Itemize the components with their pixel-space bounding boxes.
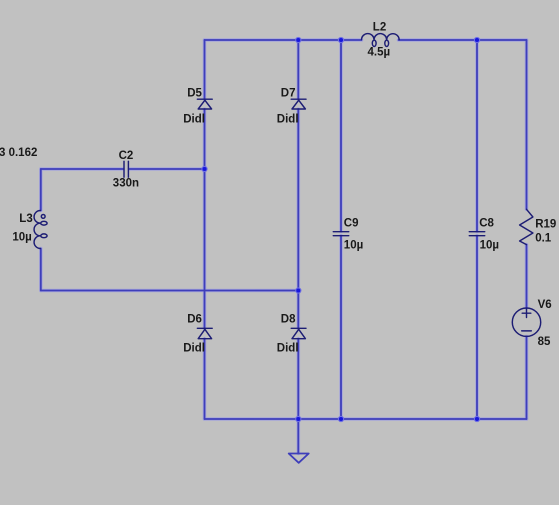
voltage source V6 [512, 308, 540, 336]
svg-text:D8: D8 [281, 313, 296, 325]
svg-text:330n: 330n [113, 177, 139, 189]
svg-text:Didl: Didl [277, 343, 299, 355]
wire left loop bottom (to D8 node) [41, 290, 299, 292]
wire right leg middle (R19 to V6) [526, 245, 528, 308]
svg-text:3 0.162: 3 0.162 [0, 147, 37, 159]
svg-text:C8: C8 [479, 217, 494, 229]
svg-text:C9: C9 [344, 217, 359, 229]
svg-text:4.5µ: 4.5µ [368, 46, 391, 58]
wire right leg upper (to R19) [526, 40, 528, 209]
svg-text:D6: D6 [187, 313, 202, 325]
svg-text:R19: R19 [535, 218, 556, 230]
svg-text:D5: D5 [187, 87, 202, 99]
wire left leg middle (D5 to D6) [204, 109, 206, 329]
diode D6 [197, 328, 212, 338]
svg-text:10µ: 10µ [480, 240, 499, 252]
wire bottom bus [205, 418, 527, 420]
svg-text:L2: L2 [373, 21, 386, 33]
wire C8 leg lower [476, 236, 478, 419]
wire left leg upper (to D5) [204, 40, 206, 99]
svg-text:Didl: Didl [277, 113, 299, 125]
wire left loop top left (to C2) [41, 168, 123, 170]
resistor R19 [520, 209, 533, 244]
wire C9 leg lower [340, 236, 342, 419]
inductor L3 [34, 211, 47, 249]
wire ground stem [297, 419, 299, 454]
junction dot L3 return node [296, 288, 301, 293]
ground symbol [289, 454, 309, 463]
junction dot bottom ground node [296, 416, 301, 421]
wire top bus left segment [205, 39, 362, 41]
svg-text:L3: L3 [19, 213, 32, 225]
capacitor C8 [469, 232, 484, 236]
svg-text:D7: D7 [281, 87, 296, 99]
wire left leg lower (D6 to bottom bus) [204, 339, 206, 419]
capacitor C2 [124, 161, 128, 177]
wire C9 leg upper [340, 40, 342, 232]
junction dot bottom C9 node [338, 416, 343, 421]
wire left loop left lower (L3 down) [40, 249, 42, 291]
svg-text:Didl: Didl [183, 343, 205, 355]
wire halo layer (soft glow under all wires) [41, 40, 527, 454]
svg-text:85: 85 [538, 336, 551, 348]
diode D8 [291, 328, 306, 338]
capacitor C9 [333, 232, 348, 236]
svg-text:Didl: Didl [183, 113, 205, 125]
wire left loop left upper (to L3) [40, 169, 42, 211]
inductor L2 [362, 34, 400, 47]
junction dot C2 output node [202, 166, 207, 171]
wire left loop top right (C2 to bridge node) [129, 168, 204, 170]
wire mid leg lower (D8 to bottom bus) [297, 339, 299, 419]
wire mid leg middle (D7 to D8) [297, 109, 299, 329]
diode D5 [197, 99, 212, 109]
svg-text:V6: V6 [538, 299, 552, 311]
wire top bus right segment [399, 39, 527, 41]
wire right leg lower (V6 to bottom bus) [526, 336, 528, 419]
junction dot top C9 node [338, 37, 343, 42]
junction dot top D7 node [296, 37, 301, 42]
junction dot bottom C8 node [474, 416, 479, 421]
svg-text:10µ: 10µ [344, 240, 363, 252]
wire C8 leg upper [476, 40, 478, 232]
wire mid leg upper (to D7) [297, 40, 299, 99]
svg-text:0.1: 0.1 [535, 233, 552, 245]
svg-text:C2: C2 [119, 150, 134, 162]
diode D7 [291, 99, 306, 109]
svg-text:10µ: 10µ [12, 232, 31, 244]
junction dot top C8 node [474, 37, 479, 42]
